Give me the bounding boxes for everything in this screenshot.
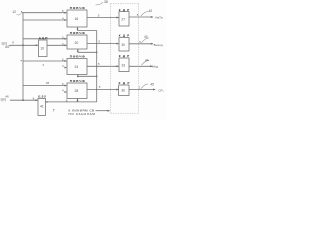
arrowhead up into U1 bottom <box>77 27 79 30</box>
svg-text:44: 44 <box>5 45 9 49</box>
svg-text:П Ф Б Ч Ф: П Ф Б Ч Ф <box>70 31 85 35</box>
wire caption arrow <box>96 110 110 112</box>
wire feedback bus vertical <box>96 31 98 102</box>
arrowhead R3 out <box>150 65 153 67</box>
arrowhead U1 upper <box>64 12 67 14</box>
swoosh 45 row4 <box>141 84 148 88</box>
svg-text:36: 36 <box>121 89 125 93</box>
filter U3 <box>67 59 87 75</box>
svg-text:46: 46 <box>5 94 9 98</box>
arrowhead into bottom box <box>35 99 38 101</box>
arrowhead U2 upper <box>64 38 67 40</box>
quantizer R1 <box>119 12 129 27</box>
arrowhead caption arrow <box>107 110 110 112</box>
dashed channel boundary right <box>138 4 140 113</box>
svg-text:38: 38 <box>46 81 50 85</box>
svg-text:БЗУ: БЗУ <box>38 95 46 99</box>
arrowhead R1 out <box>151 16 154 18</box>
svg-text:42: 42 <box>149 9 153 13</box>
wire U2 output <box>87 43 119 45</box>
svg-text:33: 33 <box>122 64 126 68</box>
wire to U1 upper input <box>22 12 66 14</box>
junction dot bus row3 crossing <box>96 66 97 67</box>
svg-text:П Ф Б Ч Ф: П Ф Б Ч Ф <box>70 79 85 83</box>
svg-text:КДР: КДР <box>119 34 129 38</box>
wire up into U2 bottom <box>77 49 79 52</box>
wire bottom input <box>10 99 38 101</box>
wire R4 output <box>129 89 155 91</box>
tick line1 left end <box>20 11 23 13</box>
arrowhead U1 lower <box>64 19 67 21</box>
filter U1 <box>67 10 87 27</box>
svg-text:П Ф Б Ч Ф: П Ф Б Ч Ф <box>70 6 85 10</box>
wire bottom box output <box>46 101 97 103</box>
wire R2 output <box>129 43 153 45</box>
junction dot input <box>22 44 24 46</box>
wire U3 output <box>87 65 119 67</box>
arrowhead into R2 <box>116 43 119 45</box>
svg-text:КДР: КДР <box>119 54 129 58</box>
wire U1 output <box>87 17 119 19</box>
svg-text:28: 28 <box>75 89 79 93</box>
svg-text:16: 16 <box>75 17 79 21</box>
arrowhead U3 upper <box>64 60 67 62</box>
arrowhead into R4 <box>116 89 119 91</box>
junction dot bus U2 connector <box>96 52 98 54</box>
junction dot bottom input <box>22 99 24 101</box>
svg-text:Мод: Мод <box>152 65 158 69</box>
wire up into U3 bottom <box>77 75 79 77</box>
arrowhead U2 lower <box>64 44 67 46</box>
svg-text:43: 43 <box>144 35 148 39</box>
wire to U1 lower input <box>23 19 66 21</box>
quantizer R3 <box>119 58 129 72</box>
quantizer R2 <box>119 38 129 52</box>
wire connector under U3 <box>78 75 97 77</box>
wire R3 output <box>129 65 152 67</box>
junction dot bus U3 connector <box>96 76 98 78</box>
wire to U2 upper input <box>23 38 66 40</box>
box 10 (transform) <box>38 40 47 57</box>
svg-text:41: 41 <box>40 105 44 109</box>
filter U4 <box>67 83 87 99</box>
tick line y61 left end <box>21 60 22 61</box>
quantizer R4 <box>119 85 129 96</box>
svg-text:П Ф Б Ч Ф: П Ф Б Ч Ф <box>70 54 85 58</box>
arrowhead up into U2 bottom <box>77 49 79 52</box>
svg-text:10: 10 <box>40 47 44 51</box>
junction dot bus row4 crossing <box>96 89 97 90</box>
box 41 bottom <box>38 98 46 115</box>
svg-text:30: 30 <box>122 43 126 47</box>
swoosh 44 row3 <box>142 61 150 66</box>
dashed channel boundary bottom <box>111 112 139 114</box>
svg-text:ПО КАНАЛАМ: ПО КАНАЛАМ <box>69 112 96 116</box>
arrowhead U4 upper <box>64 85 67 87</box>
label 38 with swoosh <box>96 0 108 5</box>
arrowhead into R1 <box>116 17 119 19</box>
svg-text:27: 27 <box>122 18 126 22</box>
wire connector under U1 <box>78 30 97 32</box>
svg-text:24: 24 <box>75 65 79 69</box>
svg-text:38: 38 <box>104 0 108 4</box>
svg-text:44: 44 <box>145 58 149 62</box>
filter U2 <box>67 35 87 49</box>
svg-text:12: 12 <box>12 10 16 14</box>
arrowhead U3 lower <box>64 67 67 69</box>
label 12 top-left <box>12 10 21 15</box>
arrowhead up into U4 bottom <box>77 99 79 102</box>
svg-text:Выход: Выход <box>154 43 163 47</box>
wire connector under U2 <box>78 51 97 53</box>
svg-text:АЦП: АЦП <box>39 36 48 40</box>
leader 44 <box>9 44 12 47</box>
wire up into U4 bottom <box>77 99 79 102</box>
wire R1 output <box>129 16 153 18</box>
arrowhead R4 out <box>153 89 156 91</box>
arrowhead into box10 <box>36 44 39 46</box>
dashed channel boundary top <box>111 3 140 5</box>
wire to U3 upper input <box>23 60 66 62</box>
wire box10 output to U2 lower input <box>47 44 66 46</box>
svg-text:СР₅: СР₅ <box>158 89 164 93</box>
wire U4 output <box>87 89 119 91</box>
svg-text:НаТа: НаТа <box>155 15 163 19</box>
wire up into U1 bottom <box>77 27 79 31</box>
wire input s(n) horizontal <box>10 44 38 46</box>
svg-text:КДР: КДР <box>119 8 129 12</box>
wire left vertical bus <box>22 13 24 101</box>
junction dot bottom box out <box>46 101 48 103</box>
arrowhead into R3 <box>116 65 119 67</box>
swoosh 42 row1 <box>141 11 150 16</box>
arrowhead R2 out <box>151 43 154 45</box>
dashed channel boundary left <box>110 4 112 114</box>
arrowhead up into U3 bottom <box>77 75 79 78</box>
svg-text:20: 20 <box>75 41 79 45</box>
wire to U4 upper input <box>23 85 66 87</box>
arrowhead U4 lower <box>64 91 67 93</box>
swoosh 43 row2 <box>142 38 150 43</box>
svg-text:45: 45 <box>150 82 154 86</box>
svg-text:КДР: КДР <box>119 81 130 85</box>
